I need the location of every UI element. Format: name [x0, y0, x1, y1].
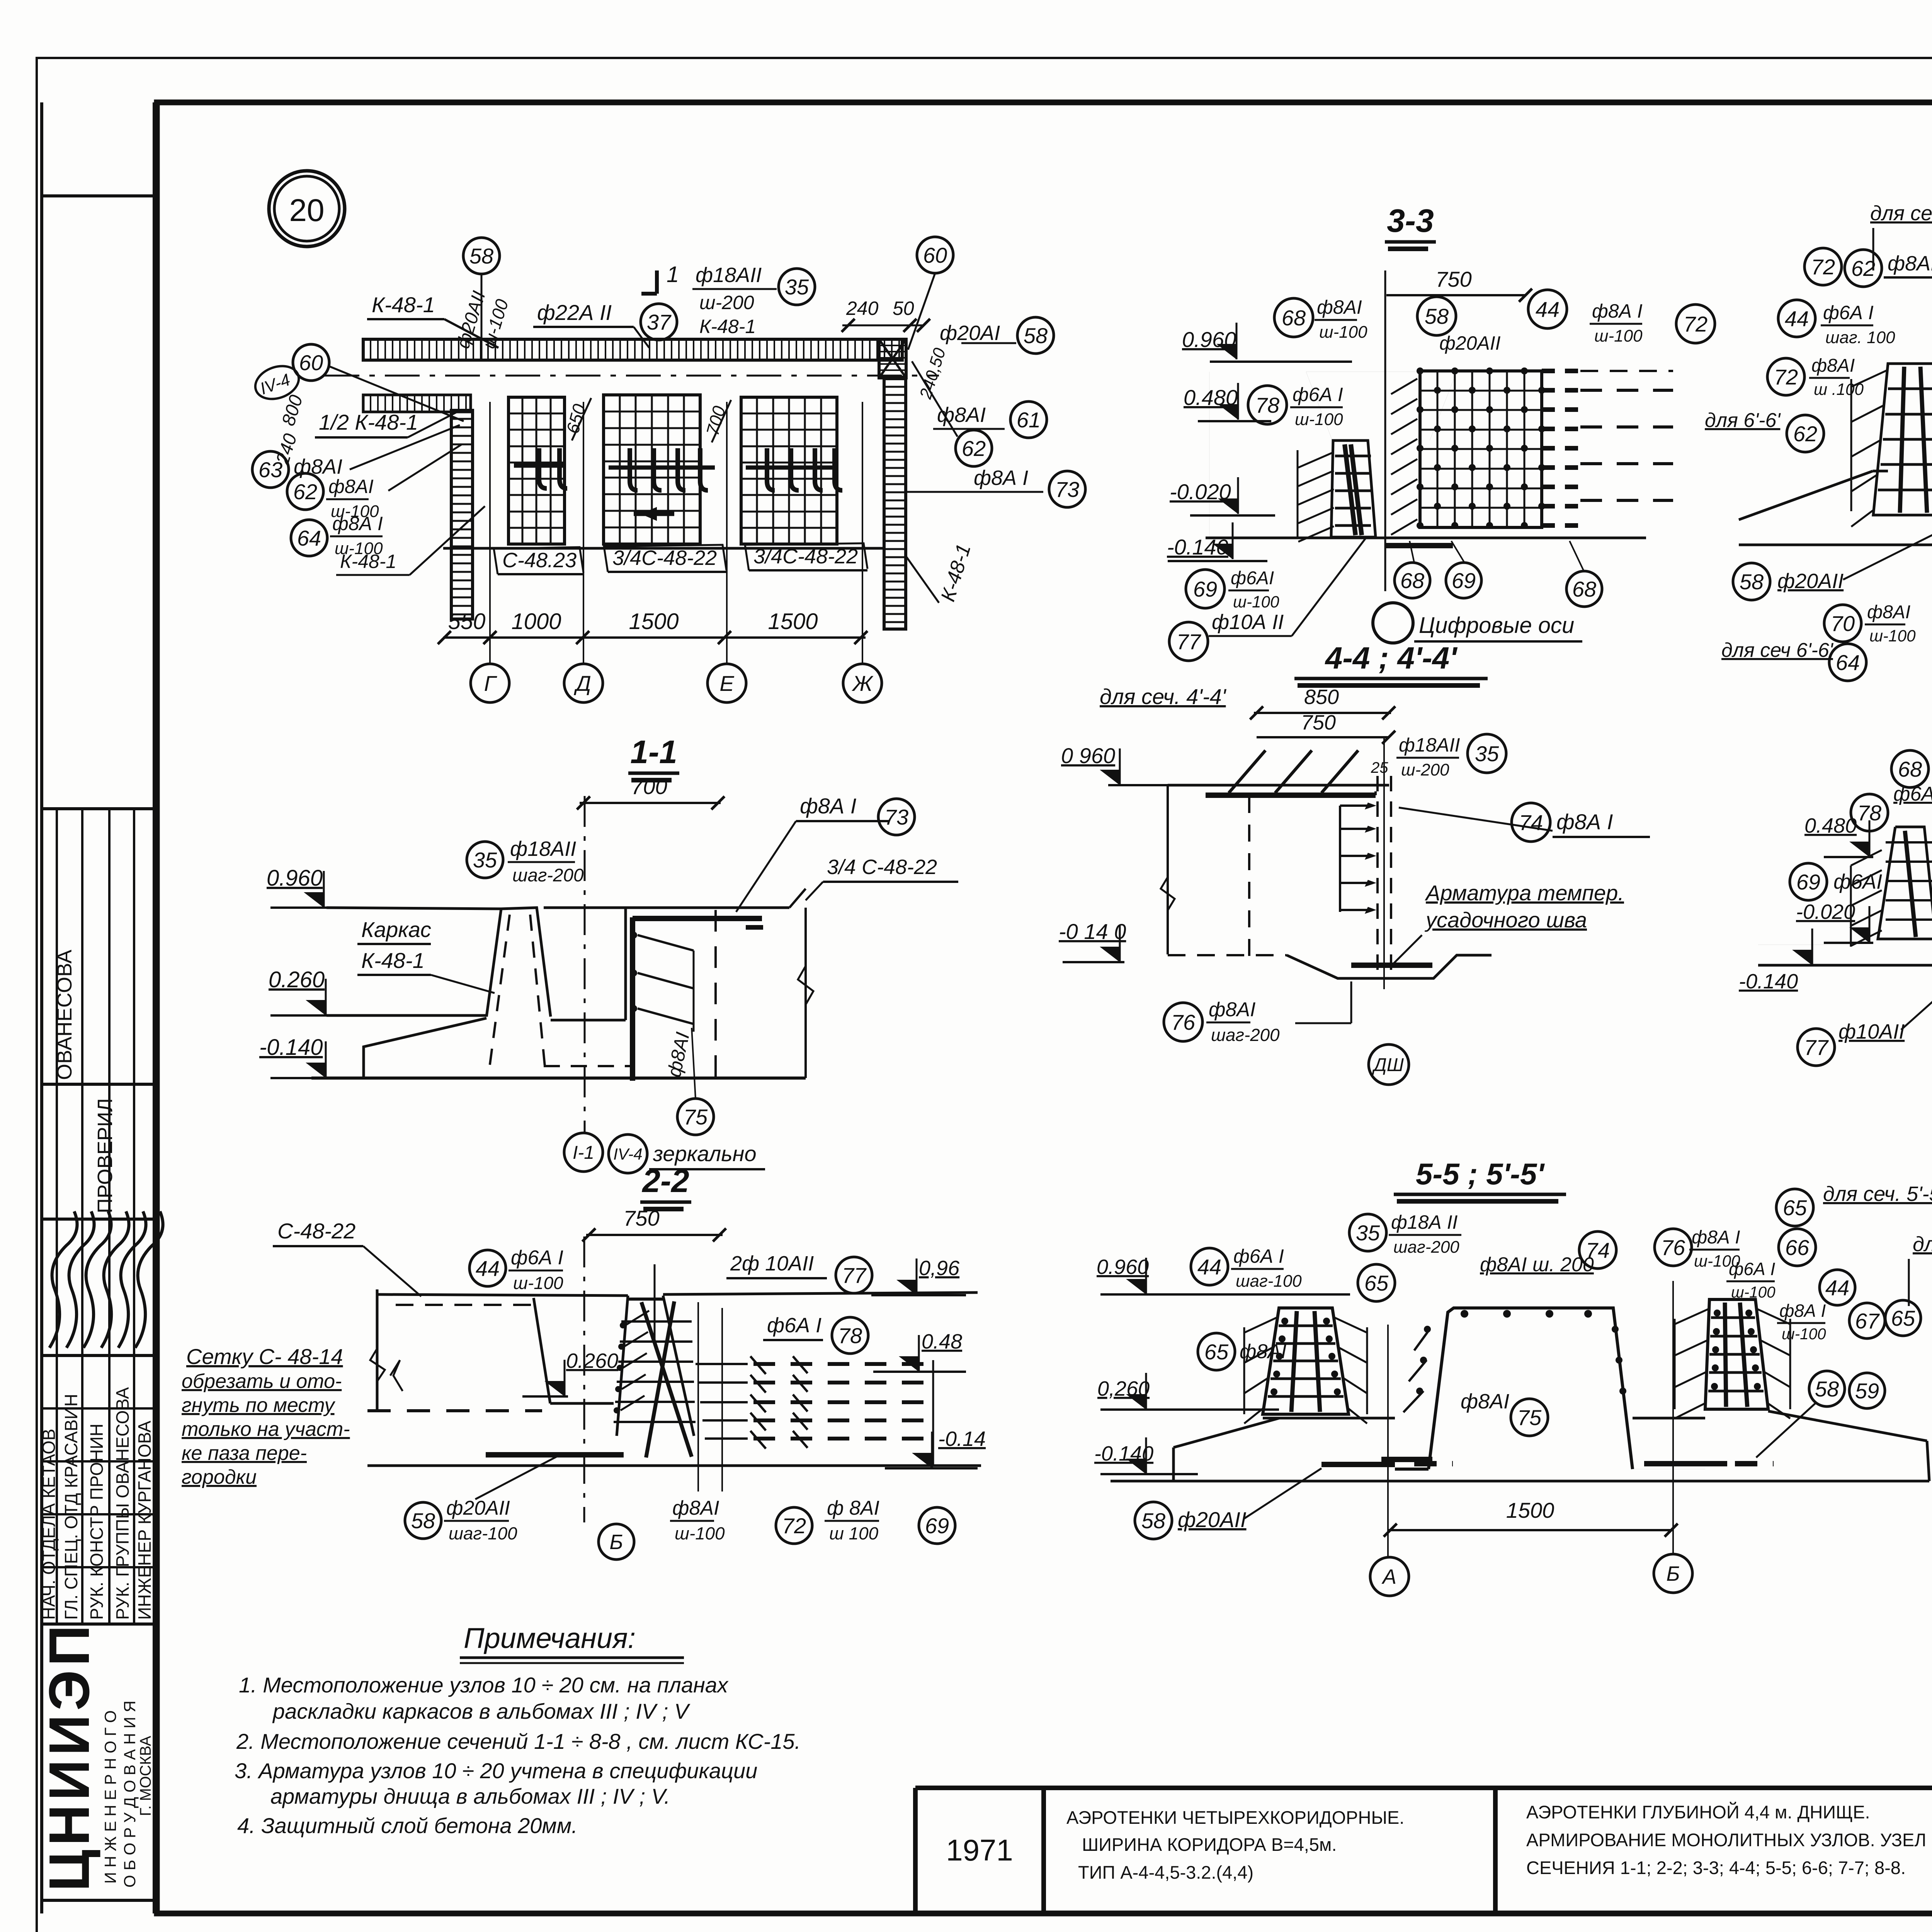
svg-text:2-2: 2-2 — [641, 1163, 689, 1199]
svg-text:ш .100: ш .100 — [1814, 380, 1864, 398]
svg-text:Е: Е — [719, 671, 734, 696]
6-6 bubble 62 top — [1845, 250, 1882, 287]
6-6 label f6A I shag100 — [1821, 302, 1895, 347]
1-1 label f18AII shag200 — [508, 837, 584, 886]
8-8 label dlya sech 5-5 — [1909, 1233, 1932, 1306]
svg-text:1500: 1500 — [768, 609, 818, 634]
leader 62 left — [388, 444, 462, 491]
3-3 left wall — [1206, 372, 1646, 546]
2-2 label f20AII shag-100 — [444, 1497, 517, 1543]
3-3 label f6AI sh-100 low — [1228, 568, 1279, 611]
svg-text:ф20АII: ф20АII — [1178, 1507, 1247, 1532]
4-4 label armatura — [1391, 881, 1624, 966]
notes heading — [460, 1622, 684, 1663]
svg-text:ДШ: ДШ — [1372, 1055, 1404, 1075]
svg-text:шаг-200: шаг-200 — [1211, 1025, 1280, 1045]
5-5 axis A — [1370, 1325, 1409, 1596]
svg-text:Каркас: Каркас — [361, 917, 431, 942]
svg-text:1971: 1971 — [946, 1833, 1013, 1867]
svg-text:60: 60 — [299, 350, 323, 375]
5-5 label f8A I right — [1689, 1227, 1740, 1270]
svg-text:1-1: 1-1 — [630, 734, 677, 770]
svg-text:ш-100: ш-100 — [513, 1273, 563, 1293]
4-4 leader 76 — [1295, 1022, 1351, 1024]
5-5 label dlya sech top — [1823, 1182, 1932, 1206]
section 6-6 dlya sech label — [1870, 202, 1932, 270]
2-2 label f6A I sh100 — [509, 1247, 563, 1293]
svg-text:Арматура темпер.: Арматура темпер. — [1425, 881, 1624, 905]
5-5 elev -0.140 — [1094, 1437, 1198, 1474]
label f8AI sh100 62 — [326, 476, 379, 521]
6-6 label f8AI top — [1884, 252, 1932, 371]
1-1 bubble 73 — [878, 799, 915, 835]
7-7 bubble 69 — [1790, 863, 1827, 900]
svg-text:-0 14 0: -0 14 0 — [1059, 919, 1126, 944]
svg-text:ф8А I: ф8А I — [974, 466, 1028, 490]
svg-text:72: 72 — [1811, 255, 1835, 279]
6-6 label dlya 6-6 left — [1705, 409, 1781, 432]
plan corner box cross — [879, 339, 906, 378]
7-7 bubble 77 — [1798, 1029, 1835, 1066]
svg-text:58: 58 — [1024, 323, 1048, 348]
staff titles and names — [39, 1387, 155, 1620]
svg-text:-0.140: -0.140 — [259, 1035, 323, 1060]
svg-text:ф10А II: ф10А II — [1212, 611, 1284, 634]
5-5 bubble 59 right — [1849, 1373, 1885, 1408]
left title strip grid — [42, 102, 154, 1913]
1-1 elev -0.140 — [259, 1035, 328, 1078]
2-2 note leader — [390, 1360, 403, 1391]
svg-text:78: 78 — [1255, 393, 1279, 417]
2-2 label f8AI sh-100 72 — [670, 1497, 725, 1543]
1-1 bubble IV-4 — [609, 1134, 647, 1173]
1-1 leader 75 — [692, 1028, 696, 1099]
label f8A I sh100 K-48-1 64 — [330, 506, 485, 575]
bubble 60 right — [917, 237, 953, 273]
leader K-48-1 right — [906, 556, 939, 603]
svg-text:ф8А I: ф8А I — [1692, 1227, 1740, 1248]
svg-text:68: 68 — [1898, 757, 1922, 781]
7-7 bubble 78 — [1851, 794, 1888, 831]
tag 3/4C-48-22 left — [604, 545, 726, 572]
svg-text:59: 59 — [1855, 1379, 1879, 1403]
svg-text:ф8АI ш. 200: ф8АI ш. 200 — [1480, 1253, 1594, 1276]
svg-text:750: 750 — [623, 1206, 659, 1230]
svg-text:АЭРОТЕНКИ ЧЕТЫРЕХКОРИДОРНЫЕ.: АЭРОТЕНКИ ЧЕТЫРЕХКОРИДОРНЫЕ. — [1066, 1807, 1404, 1828]
svg-text:73: 73 — [884, 805, 908, 829]
svg-text:ф8АI: ф8АI — [1461, 1390, 1509, 1413]
4-4 bubble 76 — [1164, 1003, 1202, 1041]
svg-text:77: 77 — [842, 1263, 867, 1287]
svg-text:0.48: 0.48 — [922, 1330, 962, 1353]
svg-text:35: 35 — [473, 848, 497, 872]
svg-text:ф20АII: ф20АII — [1439, 332, 1501, 354]
3-3 hatch left of mesh — [1391, 379, 1417, 535]
svg-text:ф18А II: ф18А II — [1391, 1211, 1458, 1233]
svg-text:шаг-100: шаг-100 — [449, 1524, 517, 1543]
svg-text:0.960: 0.960 — [1097, 1255, 1149, 1279]
svg-text:ф18АII: ф18АII — [1399, 734, 1460, 756]
svg-text:ф20АI: ф20АI — [940, 321, 1000, 345]
svg-text:ИНЖЕНЕР КУРГАНОВА: ИНЖЕНЕР КУРГАНОВА — [134, 1420, 155, 1620]
label f8AI right 61 — [933, 403, 1005, 429]
svg-text:66: 66 — [1785, 1235, 1810, 1260]
5-5 bubble 76 — [1655, 1229, 1692, 1266]
svg-text:73: 73 — [1055, 477, 1079, 502]
svg-text:65: 65 — [1891, 1306, 1915, 1330]
5-5 label f8AI sh200 — [1480, 1253, 1594, 1276]
svg-text:78: 78 — [838, 1323, 862, 1348]
svg-text:для сеч. 4'-4': для сеч. 4'-4' — [1100, 684, 1227, 709]
6-6 bubble 44 — [1778, 300, 1815, 337]
4-4 label f8A I 74 — [1399, 808, 1650, 837]
bubble 58 top — [463, 238, 500, 274]
3-3 leader 68 low3 — [1570, 541, 1584, 571]
1-1 bubble 75 — [677, 1099, 714, 1135]
label 1/2 K-48-1 — [315, 410, 458, 437]
svg-text:А: А — [1381, 1565, 1396, 1588]
5-5 bubble 65 top — [1776, 1189, 1813, 1226]
plan mesh 3/4C-48-22 right — [741, 397, 837, 544]
6-6 bubble 72 top — [1804, 248, 1842, 285]
svg-text:25: 25 — [1371, 759, 1388, 776]
3-3 elev -0.020 — [1170, 477, 1275, 515]
svg-text:Примечания:: Примечания: — [464, 1622, 636, 1654]
1-1 elev 0.260 — [269, 967, 328, 1015]
1-1 label Karkas K-48-1 — [357, 917, 495, 993]
section 2-2 title — [640, 1163, 691, 1209]
svg-text:0.480: 0.480 — [1804, 814, 1857, 837]
leader 58 right — [961, 342, 1016, 344]
5-5 bubble 44 left — [1191, 1248, 1228, 1285]
svg-text:Г. МОСКВА: Г. МОСКВА — [137, 1736, 154, 1816]
svg-text:2. Местоположение сечений: 2. Местоположение сечений 1-1 ÷ 8-8 , см… — [236, 1729, 801, 1753]
4-4 label f8AI shag-200 — [1206, 998, 1280, 1045]
svg-text:Б: Б — [609, 1531, 623, 1554]
svg-text:0.260: 0.260 — [566, 1349, 618, 1372]
dim 240 50 — [842, 298, 930, 332]
svg-text:63: 63 — [259, 457, 282, 482]
3-3 label f6A I sh-100 78 — [1290, 384, 1343, 429]
svg-text:ф8А I: ф8А I — [1556, 810, 1613, 834]
2-2 dim 750 — [582, 1206, 726, 1242]
svg-text:шаг-100: шаг-100 — [1236, 1272, 1302, 1291]
svg-text:ш-200: ш-200 — [1401, 760, 1449, 779]
3-3 bubble 58 — [1417, 297, 1456, 335]
4-4 label dlya sech — [1100, 684, 1227, 709]
svg-text:ф22А II: ф22А II — [537, 300, 612, 325]
3-3 bubble 77 — [1169, 622, 1208, 661]
svg-text:35: 35 — [1475, 742, 1499, 766]
bubble 37 plan — [641, 304, 677, 340]
svg-text:IV-4: IV-4 — [613, 1145, 642, 1163]
svg-text:для сеч. 5'-5': для сеч. 5'-5' — [1913, 1233, 1932, 1256]
svg-text:Ж: Ж — [851, 671, 874, 696]
6-6 label f8AI sh-100 70 — [1865, 602, 1916, 645]
svg-text:60: 60 — [923, 243, 947, 267]
svg-text:ф10АII: ф10АII — [1838, 1020, 1905, 1043]
section 3-3 title — [1385, 202, 1436, 249]
plan section mark 1 — [641, 262, 679, 294]
svg-text:75: 75 — [1517, 1405, 1542, 1430]
5-5 axis B — [1654, 1281, 1692, 1593]
2-2 bubble B — [599, 1524, 634, 1560]
5-5 label f6A I left — [1231, 1245, 1302, 1291]
svg-text:только на участ-: только на участ- — [182, 1418, 350, 1440]
section 4-4 title — [1294, 641, 1488, 685]
svg-text:ф6А I: ф6А I — [1729, 1259, 1775, 1279]
6-6 bubble 58 — [1733, 563, 1770, 600]
bubble 58 right — [1017, 317, 1054, 354]
plan rotated dim 650 — [562, 398, 591, 440]
5-5 elev 0.960 — [1097, 1255, 1350, 1294]
4-4 bubble 74 — [1512, 803, 1550, 842]
2-2 centerline — [583, 1236, 585, 1522]
svg-text:ф6АI: ф6АI — [1893, 783, 1932, 805]
label f20AI — [940, 321, 1000, 345]
4-4 dim 850 — [1250, 685, 1395, 719]
5-5 left wall — [1244, 1308, 1367, 1423]
svg-text:67: 67 — [1855, 1309, 1880, 1333]
5-5 bubble 35 — [1349, 1214, 1386, 1251]
5-5 label f8A I right2 — [1777, 1301, 1826, 1343]
svg-text:64: 64 — [297, 526, 321, 550]
plan axis bubbles — [471, 402, 882, 702]
svg-text:ф8АI: ф8АI — [1209, 998, 1256, 1021]
5-5 bubble 75 — [1511, 1399, 1548, 1436]
svg-text:ш-100: ш-100 — [1295, 410, 1343, 429]
2-2 bubble 78 — [832, 1317, 868, 1354]
svg-text:ш-100: ш-100 — [1782, 1325, 1826, 1343]
svg-text:ш-100: ш-100 — [1319, 323, 1367, 342]
3-3 leader 69 low2 — [1451, 541, 1464, 563]
svg-text:ШИРИНА КОРИДОРА В=4,5м.: ШИРИНА КОРИДОРА В=4,5м. — [1082, 1834, 1337, 1855]
svg-text:75: 75 — [684, 1105, 708, 1129]
svg-text:К-48-1: К-48-1 — [340, 551, 396, 572]
3-3 bubble 69 low — [1186, 570, 1225, 608]
label f8A I right 73 — [970, 466, 1043, 492]
svg-text:700: 700 — [631, 774, 667, 799]
svg-text:ф6А I: ф6А I — [767, 1314, 821, 1337]
svg-text:70: 70 — [1831, 611, 1855, 636]
plan mesh hook bars — [514, 448, 842, 521]
svg-text:РУК. КОНСТР ПРОНИН: РУК. КОНСТР ПРОНИН — [87, 1423, 107, 1620]
3-3 bubble 68 low — [1395, 563, 1430, 598]
6-6 bubble 62 left — [1787, 415, 1824, 452]
svg-text:ф8А I: ф8А I — [332, 513, 383, 534]
6-6 label f8AI sh100 left — [1809, 355, 1864, 398]
svg-text:1500: 1500 — [629, 609, 679, 634]
svg-text:50: 50 — [893, 298, 914, 319]
sheet name — [1526, 1802, 1932, 1878]
label K-48-1 top — [367, 293, 498, 348]
3-3 elev 0.960 — [1182, 323, 1352, 362]
svg-text:44: 44 — [476, 1256, 500, 1281]
2-2 leader 58 — [475, 1457, 556, 1499]
svg-text:ПРОВЕРИЛ: ПРОВЕРИЛ — [94, 1098, 117, 1213]
4-4 bubble 35 — [1468, 734, 1506, 773]
svg-text:для сеч. 5'-5': для сеч. 5'-5' — [1823, 1182, 1932, 1206]
svg-text:76: 76 — [1171, 1010, 1196, 1034]
svg-text:0.960: 0.960 — [267, 866, 323, 891]
svg-text:44: 44 — [1785, 306, 1809, 331]
svg-text:2ф 10АII: 2ф 10АII — [730, 1252, 814, 1275]
svg-text:72: 72 — [782, 1514, 806, 1538]
2-2 bubble 44 — [469, 1250, 506, 1286]
svg-text:72: 72 — [1684, 312, 1708, 336]
svg-text:1000: 1000 — [511, 609, 561, 634]
svg-text:С-48-22: С-48-22 — [277, 1219, 355, 1243]
bubble 63 — [252, 451, 289, 488]
svg-text:-0.140: -0.140 — [1739, 970, 1798, 993]
svg-text:И Н Ж Е Н Е Р Н О Г О: И Н Ж Е Н Е Р Н О Г О — [101, 1710, 119, 1884]
plan corner box (hatched) — [879, 339, 906, 378]
oval IV-4 — [251, 361, 303, 405]
2-2 label 2f10AII — [726, 1252, 827, 1278]
1-1 label 3/4 C-48-22 — [806, 855, 958, 900]
section 4-4 structure — [1161, 737, 1492, 989]
svg-text:62: 62 — [293, 480, 317, 504]
5-5 elev 0.280 — [1097, 1373, 1279, 1410]
bubble 62 left — [287, 473, 323, 510]
svg-text:77: 77 — [1804, 1035, 1829, 1060]
tag C-48.23 — [494, 547, 583, 574]
svg-text:Цифровые оси: Цифровые оси — [1419, 613, 1574, 638]
svg-text:ф 8АI: ф 8АI — [827, 1497, 879, 1519]
svg-text:ф8АI: ф8АI — [1867, 602, 1910, 622]
leader 60 right — [908, 273, 935, 350]
leader 60 left — [329, 366, 464, 421]
plan left half band (hatched) — [363, 395, 471, 412]
svg-text:усадочного шва: усадочного шва — [1424, 908, 1587, 932]
svg-text:ф8А I: ф8А I — [800, 794, 856, 818]
3-3 bubble 44 — [1528, 290, 1567, 328]
svg-text:ш-100: ш-100 — [1869, 627, 1916, 645]
svg-text:АЭРОТЕНКИ ГЛУБИНОЙ 4,4 м.: АЭРОТЕНКИ ГЛУБИНОЙ 4,4 м. ДНИЩЕ. — [1526, 1802, 1870, 1822]
3-3 label tsifrovye osi — [1414, 613, 1582, 641]
2-2 elev 0.260 — [522, 1349, 618, 1396]
svg-text:Д: Д — [573, 671, 591, 696]
svg-text:58: 58 — [1141, 1509, 1165, 1533]
3-3 mesh — [1417, 367, 1673, 529]
svg-text:РУК. ГРУППЫ ОВАНЕСОВА: РУК. ГРУППЫ ОВАНЕСОВА — [112, 1387, 133, 1620]
svg-text:Сетку С- 48-14: Сетку С- 48-14 — [186, 1344, 343, 1369]
2-2 label C-48-22 — [273, 1219, 421, 1296]
svg-text:58: 58 — [1425, 304, 1449, 328]
svg-text:ф20АII: ф20АII — [446, 1497, 510, 1519]
6-6 left wall — [1851, 364, 1932, 527]
svg-text:ш-100: ш-100 — [1594, 327, 1643, 345]
3-3 bubble 68 low3 — [1566, 571, 1602, 607]
svg-text:65: 65 — [1783, 1196, 1807, 1220]
svg-text:3/4 С-48-22: 3/4 С-48-22 — [827, 855, 937, 879]
7-7 label f10AII — [1838, 966, 1932, 1043]
svg-text:ф6А I: ф6А I — [1293, 384, 1343, 405]
svg-text:Г: Г — [484, 671, 497, 696]
6-6 slope left — [1739, 471, 1873, 520]
title block grid — [915, 1788, 1932, 1913]
3-3 bubble 69 low2 — [1446, 563, 1481, 598]
svg-text:ш-100: ш-100 — [675, 1524, 725, 1543]
3-3 centerline — [1384, 270, 1386, 591]
2-2 elev 0.48 — [873, 1330, 966, 1372]
svg-text:3/4С-48-22: 3/4С-48-22 — [753, 545, 858, 568]
svg-text:76: 76 — [1661, 1235, 1685, 1260]
svg-text:ш-100: ш-100 — [1233, 593, 1279, 611]
svg-text:НАЧ. ОТДЕЛА КЕТАОВ: НАЧ. ОТДЕЛА КЕТАОВ — [39, 1429, 59, 1620]
svg-text:ф18АII: ф18АII — [696, 264, 762, 287]
4-4 elev 0.960 — [1061, 743, 1175, 785]
1-1 label f8A I — [736, 794, 889, 912]
svg-text:К-48-1: К-48-1 — [361, 948, 425, 973]
svg-text:69: 69 — [1796, 870, 1820, 894]
5-5 bubble 74 — [1579, 1231, 1616, 1269]
svg-text:64: 64 — [1836, 650, 1860, 675]
3-3 label f8AI sh-100 — [1315, 296, 1367, 342]
svg-text:ф8АI: ф8АI — [1811, 355, 1855, 376]
svg-text:ф6АI: ф6АI — [1231, 568, 1274, 588]
svg-text:ОВАНЕСОВА: ОВАНЕСОВА — [53, 950, 76, 1080]
svg-text:I-1: I-1 — [573, 1143, 594, 1163]
bubble 73 plan — [1049, 471, 1085, 507]
svg-text:44: 44 — [1197, 1255, 1221, 1279]
plan inner wall line — [443, 547, 883, 550]
4-4 bubble DSh — [1369, 1044, 1409, 1085]
1-1 label zerkalno — [649, 1141, 765, 1169]
svg-text:1. Местоположение узлов 10: 1. Местоположение узлов 10 ÷ 20 см. на п… — [239, 1673, 729, 1697]
6-6 base slab — [1739, 471, 1932, 545]
label f22A II — [533, 300, 649, 348]
svg-text:раскладки каркасов в альб: раскладки каркасов в альбомах III ; IV ;… — [272, 1699, 690, 1723]
svg-text:О Б О Р У Д О В А Н И Я: О Б О Р У Д О В А Н И Я — [121, 1701, 139, 1888]
svg-text:для 6'-6': для 6'-6' — [1705, 409, 1781, 432]
svg-text:СЕЧЕНИЯ 1-1; 2-2; 3-3; 4-4; 5: СЕЧЕНИЯ 1-1; 2-2; 3-3; 4-4; 5-5; 6-6; 7-… — [1526, 1857, 1906, 1878]
svg-text:0 960: 0 960 — [1061, 743, 1115, 768]
5-5 label f18A II — [1389, 1211, 1461, 1257]
plan mesh 3/4C-48-22 left — [604, 395, 700, 544]
6-6 bubble 72 left — [1767, 358, 1804, 395]
signatures — [49, 1211, 163, 1348]
svg-text:69: 69 — [1452, 568, 1476, 593]
detail bubble 20 — [269, 171, 345, 247]
svg-text:городки: городки — [182, 1466, 257, 1488]
svg-text:ф8А I: ф8А I — [1779, 1301, 1826, 1321]
5-5 base slab — [1111, 1411, 1929, 1481]
leader 58 — [481, 274, 483, 359]
bubble 35 plan — [779, 269, 815, 305]
leader 63 — [350, 425, 460, 469]
4-4 elev -0140 — [1059, 919, 1126, 962]
svg-text:ЦНИИЭП: ЦНИИЭП — [37, 1621, 101, 1891]
3-3 bubble 78 — [1248, 386, 1287, 424]
section 5-5 title — [1394, 1157, 1566, 1201]
5-5 bubble 65 farleft — [1198, 1333, 1235, 1370]
svg-text:35: 35 — [1356, 1221, 1380, 1245]
3-3 bubble 72 — [1676, 304, 1715, 343]
bubble 62 right — [956, 430, 992, 466]
2-2 elev -0.14 right — [885, 1427, 986, 1468]
svg-text:77: 77 — [1177, 629, 1201, 654]
svg-text:С-48.23: С-48.23 — [502, 549, 577, 572]
svg-text:ф6А I: ф6А I — [1823, 302, 1874, 323]
svg-text:68: 68 — [1572, 577, 1596, 601]
section 2-2 structure — [367, 1264, 981, 1492]
svg-text:58: 58 — [1815, 1377, 1839, 1401]
4-4 dim 750 — [1257, 711, 1395, 744]
svg-text:1: 1 — [667, 262, 679, 287]
svg-text:0.260: 0.260 — [269, 967, 325, 992]
svg-text:ф8АI: ф8АI — [672, 1497, 719, 1519]
